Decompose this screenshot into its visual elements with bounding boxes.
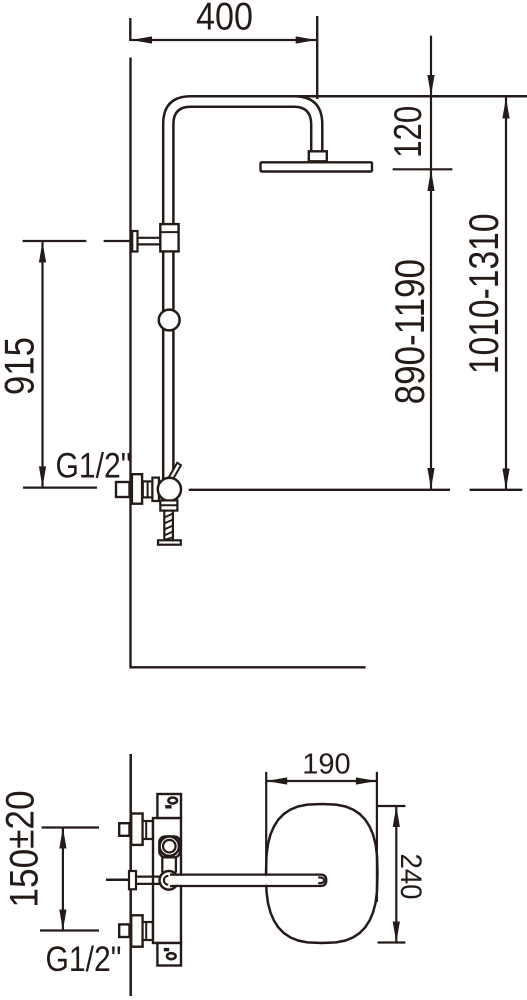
node arrow left 190 — [266, 777, 287, 784]
component valve body block — [152, 478, 159, 501]
wire extension line top 915 — [23, 240, 87, 242]
component head connector nut — [309, 151, 327, 161]
node arrow up to head level — [427, 170, 434, 191]
svg-text:400: 400 — [196, 0, 253, 38]
wire shower arm right outer bend — [294, 96, 322, 151]
component knob outer circle — [160, 837, 179, 856]
svg-text:890-1190: 890-1190 — [387, 259, 434, 404]
node extension tick right of 400 dim — [316, 16, 318, 99]
node screw dash bottom — [164, 948, 169, 951]
wire dimension line 190 — [266, 780, 377, 782]
component hose end plate — [158, 540, 181, 544]
node arrow down to valve center — [427, 468, 434, 489]
node arrow down to valve center line — [502, 469, 509, 490]
component lower inlet wall square — [119, 924, 129, 937]
node arrow right 400 — [296, 36, 317, 43]
wire valve center extension line left part — [189, 489, 450, 491]
wire cartridge neck left — [161, 857, 163, 872]
node arrow up 240 — [393, 806, 400, 827]
component middle wall flange — [129, 871, 136, 889]
node arm slot inner end arc — [164, 876, 168, 885]
component slider ball — [159, 310, 180, 331]
svg-text:1010-1310: 1010-1310 — [461, 213, 507, 374]
svg-text:G1/2": G1/2" — [46, 939, 122, 979]
wire extension line bottom 915 — [23, 487, 97, 489]
wire dimension line 1010-1310 — [505, 98, 507, 490]
node arm tip inner line — [318, 877, 324, 883]
component knob housing — [159, 836, 180, 857]
wire lever line left — [106, 879, 131, 882]
node arrow down 915 — [39, 466, 46, 487]
node screw dash top — [165, 805, 171, 808]
wire bracket arm bottom line — [138, 243, 161, 245]
node arrow down 150 — [59, 910, 66, 931]
wire dimension line 400 — [131, 39, 317, 41]
wire stem bottom line — [136, 883, 160, 885]
node extension tick left of 400 dim — [129, 18, 131, 41]
component valve nut — [143, 481, 153, 497]
svg-text:240: 240 — [394, 853, 427, 899]
wire shower arm inner line — [173, 107, 294, 479]
svg-text:150±20: 150±20 — [0, 790, 46, 907]
wire dimension line 120 and 890-1190 — [430, 36, 432, 489]
component arm tube top view — [167, 876, 325, 885]
wire wall line bottom view — [129, 754, 132, 996]
component top mounting box — [157, 794, 181, 818]
wire extension left 190 — [265, 772, 267, 874]
component valve round body — [158, 478, 181, 501]
component elbow — [160, 871, 179, 890]
wire extension bottom 150 — [40, 929, 99, 931]
component valve lever — [169, 463, 181, 480]
wire bracket arm top line — [138, 237, 161, 239]
wire extension line head level — [393, 168, 453, 170]
component bottom mounting box — [157, 943, 181, 966]
component valve lower flange — [160, 500, 177, 510]
svg-text:G1/2": G1/2" — [56, 445, 132, 485]
component shower head top view — [266, 804, 378, 943]
component lower inlet nut — [143, 922, 153, 940]
component wall bracket flange — [132, 231, 137, 252]
svg-text:915: 915 — [0, 337, 43, 395]
node knob inner circle — [163, 840, 176, 853]
node arrow up 915 — [39, 242, 46, 263]
svg-text:120: 120 — [387, 106, 430, 158]
node arrow down to arm top — [427, 75, 434, 96]
component mixer body — [153, 818, 181, 943]
svg-text:190: 190 — [302, 749, 350, 781]
wire wall and floor line — [131, 58, 366, 668]
wire stem top line — [136, 875, 160, 877]
wire dimension line 150 — [62, 828, 64, 931]
component bracket box — [160, 224, 178, 251]
node arrow up to arm top — [502, 98, 509, 119]
wire extension top 240 — [378, 805, 406, 807]
component upper inlet nut — [143, 821, 153, 839]
component upper inlet wall square — [119, 823, 129, 836]
component shower head plate — [261, 162, 373, 171]
wire shower arm right inner bend — [294, 107, 311, 152]
component valve wall square — [116, 482, 130, 497]
component upper inlet flange — [131, 814, 142, 845]
node arrow up 150 — [59, 828, 66, 849]
wire shower arm outer line + top extension line — [163, 96, 527, 479]
node screw ellipse bottom — [167, 953, 176, 959]
wire extension top 150 — [42, 826, 100, 828]
wire extension right 190 — [376, 772, 378, 902]
node screw ellipse top — [168, 798, 177, 804]
wire extension bottom 240 — [378, 941, 406, 943]
wire dimension line 240 — [395, 806, 397, 943]
wire cartridge neck right — [175, 857, 177, 872]
node arrow left 400 — [131, 36, 152, 43]
node arrow down 240 — [393, 922, 400, 943]
component lower inlet flange — [131, 915, 142, 946]
wire dimension line 915 — [41, 242, 43, 488]
component threaded hose — [164, 511, 173, 541]
wire leader to bracket — [104, 240, 130, 242]
component valve wall flange — [132, 474, 142, 504]
wire valve center extension line right part — [470, 489, 523, 491]
node arrow right 190 — [356, 777, 377, 784]
